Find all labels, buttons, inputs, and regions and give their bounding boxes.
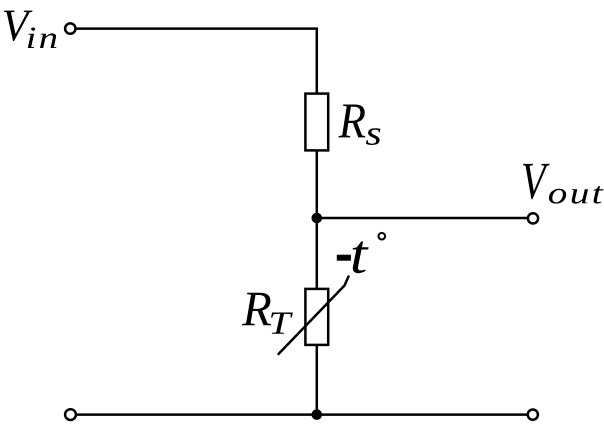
wire bottom rail [77, 413, 527, 416]
label -t° : letter t [353, 242, 369, 274]
label R_s [338, 105, 365, 138]
thermistor R_T body [305, 289, 328, 345]
label -t° : minus dash [337, 255, 351, 261]
resistor R_s [305, 94, 328, 151]
terminal Vin (open circle) [65, 23, 75, 33]
label Vout [523, 164, 550, 199]
label -t° : degree circle [379, 233, 386, 240]
wire top: Vin terminal to corner, down to Rs [76, 29, 317, 218]
wire: thermistor to bottom node [316, 345, 319, 415]
node A (junction dot) [312, 213, 323, 224]
label Vin [4, 11, 33, 41]
wire: node down to thermistor [316, 218, 319, 288]
thermistor diagonal stroke [279, 277, 349, 355]
terminal bottom-left (open circle) [65, 409, 76, 420]
wire: node to Vout terminal [317, 217, 527, 220]
terminal Vout (open circle) [528, 213, 538, 223]
terminal bottom-right (open circle) [528, 410, 538, 420]
node B (bottom junction dot) [312, 409, 323, 420]
label R_T [242, 293, 271, 326]
